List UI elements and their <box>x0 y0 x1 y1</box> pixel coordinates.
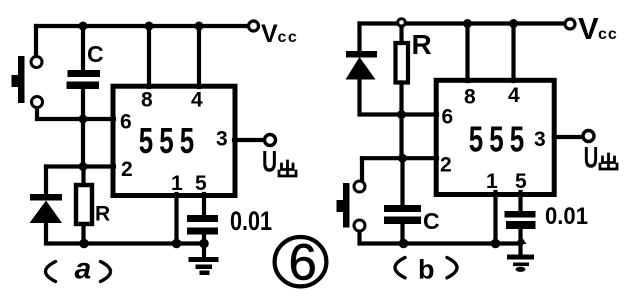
wire bottom rail (a) <box>84 241 204 245</box>
wire vertical rail to C top (a) <box>81 26 85 70</box>
IC 555 (a) <box>113 86 235 195</box>
wire diode to bottom rail (a) <box>46 223 84 244</box>
node junction C-bottom (b) <box>399 239 409 249</box>
wire rail left end down to diode (b) <box>357 24 361 52</box>
svg-text:1: 1 <box>171 172 183 195</box>
svg-text:555: 555 <box>139 121 201 161</box>
svg-text:V: V <box>578 11 599 46</box>
terminal small circle R top (b) <box>398 19 406 27</box>
pin 4 stub (a) <box>197 26 201 87</box>
pin 5 stub to 0.01 cap (a) <box>202 194 206 215</box>
ground (a) <box>189 257 219 275</box>
svg-text:a: a <box>75 253 92 286</box>
node junction R-bottom (a) <box>79 239 89 249</box>
pushbutton SB (a) <box>12 56 43 108</box>
svg-text:1: 1 <box>486 170 498 193</box>
capacitor 0.01 (a) <box>187 215 218 235</box>
svg-text:C: C <box>87 41 104 67</box>
node junction cap-bottom rail (b) <box>516 236 527 244</box>
node junction pin1-bottom (a) <box>172 239 182 249</box>
label chu subscript (b) <box>600 154 617 169</box>
label (a) caption <box>46 253 111 286</box>
label 555 (a) <box>139 121 201 161</box>
svg-text:cc: cc <box>278 29 299 46</box>
node junction pin6-vertical (a) <box>79 115 88 124</box>
svg-text:cc: cc <box>598 26 618 43</box>
pin 1 stub to bottom rail (a) <box>174 194 178 244</box>
pushbutton SB (b) <box>337 181 366 231</box>
capacitor C (a) <box>67 70 101 89</box>
svg-text:R: R <box>412 29 432 60</box>
label U out (b) <box>584 142 599 175</box>
pin 4 stub (b) <box>511 24 515 82</box>
pin 8 stub (b) <box>465 24 469 82</box>
pin 3 wire output (a) <box>234 138 264 142</box>
svg-text:3: 3 <box>534 128 546 151</box>
resistor R (a) <box>76 167 92 244</box>
pin 1 stub to bottom rail (b) <box>493 192 497 244</box>
svg-text:U: U <box>584 142 599 175</box>
wire button bottom to bottom rail (b) <box>360 232 405 244</box>
pin 8 stub (a) <box>147 26 151 87</box>
node junction pin2-C (b) <box>398 154 407 163</box>
svg-text:2: 2 <box>121 158 133 181</box>
svg-text:4: 4 <box>191 89 203 112</box>
label U out (a) <box>262 146 277 178</box>
svg-text:b: b <box>418 255 435 285</box>
wire Vcc rail (b) <box>360 21 565 25</box>
label Vcc (a) <box>261 20 298 48</box>
wire pin 2 (b) <box>362 156 437 160</box>
svg-text:0.01: 0.01 <box>545 203 588 230</box>
wire pin2 left end down to button (b) <box>360 158 364 180</box>
node junction rail-pin8 (a) <box>145 22 154 31</box>
node junction rail-pin4 (b) <box>509 19 518 28</box>
wire pin2 junction down through C (b) <box>400 158 404 205</box>
diode VD (a) <box>30 194 63 223</box>
svg-text:6: 6 <box>289 234 317 291</box>
node junction rail-pin8 (b) <box>463 19 472 28</box>
wire 0.01 to ground (b) <box>518 229 522 255</box>
svg-text:C: C <box>423 208 440 234</box>
wire diode to pin6 wire (b) <box>360 80 438 115</box>
terminal output (a) <box>265 135 276 146</box>
resistor R (b) <box>396 27 409 115</box>
wire C bottom to bottom rail (b) <box>400 224 404 244</box>
node junction rail-pin4 (a) <box>195 22 204 31</box>
svg-text:0.01: 0.01 <box>230 206 272 236</box>
svg-text:2: 2 <box>440 154 452 177</box>
svg-text:8: 8 <box>464 86 476 109</box>
svg-text:R: R <box>95 203 110 226</box>
wire left drop from rail to button (a) <box>34 26 38 56</box>
wire R junction down to pin2 wire (b) <box>399 115 403 159</box>
svg-text:4: 4 <box>508 84 520 107</box>
wire pin 2 (a) <box>46 164 114 168</box>
svg-text:6: 6 <box>120 111 132 134</box>
svg-text:V: V <box>261 20 278 48</box>
node junction pin6-R (b) <box>397 110 406 119</box>
ground (b) <box>507 255 534 272</box>
wire pin6-junction down to pin2 wire (a) <box>81 119 85 167</box>
capacitor 0.01 (b) <box>505 211 536 229</box>
svg-text:5: 5 <box>195 172 207 195</box>
label 555 (b) <box>469 119 531 159</box>
node junction pin1-bottom (b) <box>491 239 501 249</box>
node junction pin2-vertical (a) <box>79 162 88 171</box>
svg-text:6: 6 <box>442 106 454 129</box>
node junction rail-C (a) <box>79 22 88 31</box>
IC 555 (b) <box>436 80 554 194</box>
svg-text:3: 3 <box>216 128 228 151</box>
pin 3 wire output (b) <box>554 135 583 139</box>
wire bottom rail (b) <box>404 241 522 245</box>
terminal output (b) <box>583 131 594 142</box>
wire Vcc rail (a) <box>36 24 248 28</box>
terminal Vcc (a) <box>249 21 259 31</box>
terminal Vcc (b) <box>565 19 575 29</box>
label (b) caption <box>395 255 457 285</box>
label chu subscript (a) <box>279 161 296 176</box>
wire pin2 left end down to diode (a) <box>44 167 48 195</box>
pin 5 stub to 0.01 cap (b) <box>518 192 522 211</box>
wire 0.01 to ground (a) <box>202 235 206 258</box>
wire C bottom to pin6 wire (a) <box>81 89 85 120</box>
svg-text:8: 8 <box>141 89 153 112</box>
svg-text:5: 5 <box>515 170 527 193</box>
diode VD (b) <box>346 51 378 80</box>
label Vcc (b) <box>578 11 618 46</box>
capacitor C (b) <box>384 205 421 224</box>
svg-text:U: U <box>262 146 277 178</box>
wire button bottom to pin6 (a) <box>37 109 114 119</box>
node junction ground (a) <box>199 239 209 249</box>
svg-text:555: 555 <box>469 119 531 159</box>
figure number circled 6 <box>275 234 327 291</box>
